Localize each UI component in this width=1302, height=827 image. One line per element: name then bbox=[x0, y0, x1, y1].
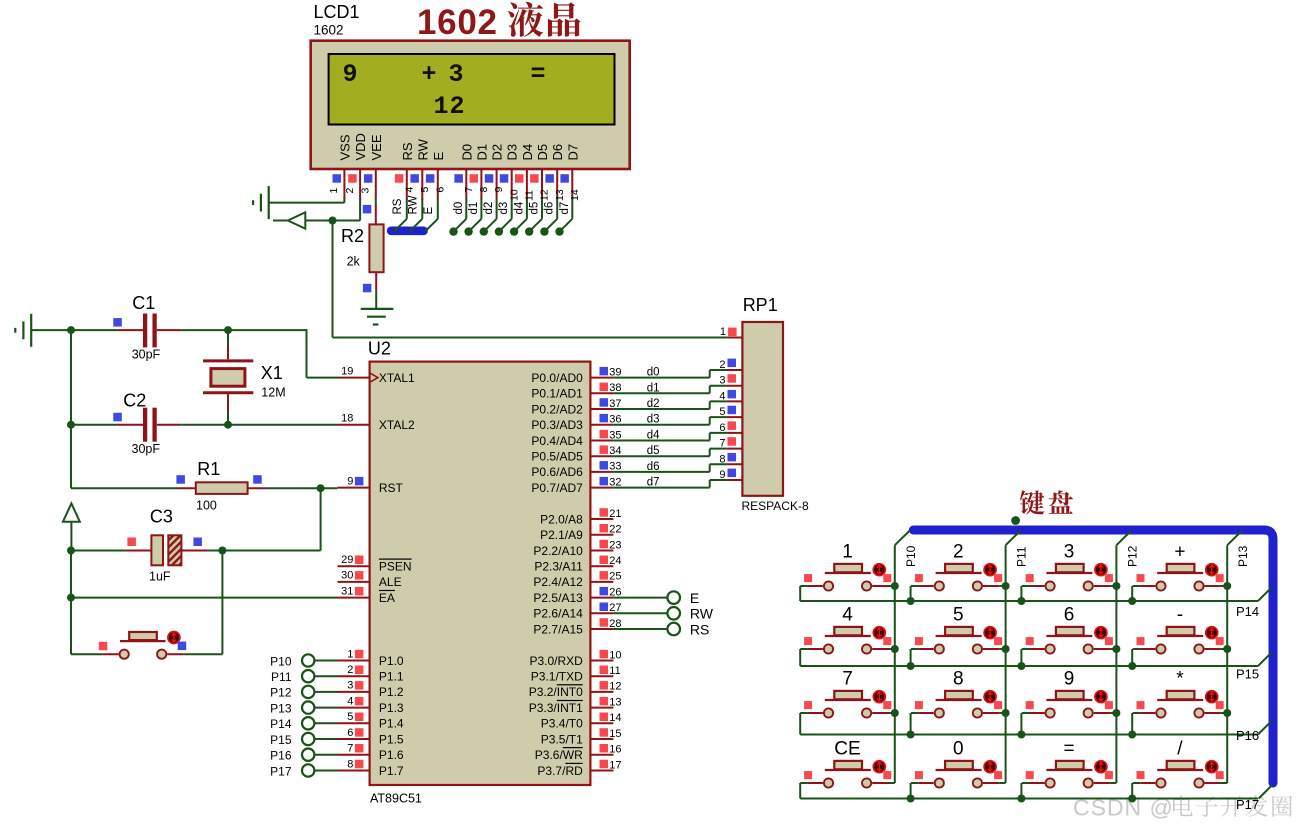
svg-text:14: 14 bbox=[609, 712, 621, 724]
svg-text:VEE: VEE bbox=[369, 134, 384, 160]
svg-text:17: 17 bbox=[609, 759, 621, 771]
U2 pin 35 (P0.4/AD4) bbox=[531, 429, 621, 448]
keypad bus (blue) bbox=[913, 530, 1273, 783]
keypad row wire 2 bbox=[800, 652, 1272, 666]
U2 pin 2 (P1.1) bbox=[338, 664, 404, 684]
wire RW from LCD to bus pill bbox=[407, 195, 422, 231]
svg-text:E: E bbox=[423, 207, 435, 215]
op U2 body (AT89C51) bbox=[370, 362, 591, 785]
push button 2 (keypad r1c2) bbox=[907, 542, 1010, 606]
svg-text:P12: P12 bbox=[1125, 545, 1139, 567]
wire d1 from LCD pin 8 to node bbox=[464, 199, 481, 236]
LCD screen text line 2 bbox=[434, 92, 465, 121]
svg-text:d2: d2 bbox=[483, 202, 495, 215]
svg-text:R2: R2 bbox=[341, 226, 364, 246]
svg-text:D5: D5 bbox=[535, 144, 550, 161]
LCD1 designator label bbox=[314, 2, 360, 37]
U2 pin 1 (P1.0) bbox=[338, 648, 404, 668]
ground (below R2) bbox=[361, 309, 394, 325]
svg-text:24: 24 bbox=[609, 555, 621, 567]
U2 pin 33 (P0.6/AD6) bbox=[531, 461, 621, 480]
blue bus entry pill (RS/RW/E) bbox=[387, 227, 428, 236]
svg-text:P2.3/A11: P2.3/A11 bbox=[534, 560, 583, 574]
svg-text:10: 10 bbox=[609, 649, 621, 661]
svg-text:P2.0/A8: P2.0/A8 bbox=[540, 512, 583, 526]
push button 9 (keypad r3c3) bbox=[1017, 669, 1120, 739]
R2 bottom stub to ground bbox=[375, 272, 377, 308]
svg-text:*: * bbox=[1176, 669, 1184, 690]
svg-text:P14: P14 bbox=[270, 717, 292, 731]
U2 pin 18 (XTAL2) bbox=[338, 413, 416, 433]
svg-text:VSS: VSS bbox=[337, 134, 352, 160]
net indicator square (R1 left) bbox=[176, 475, 185, 484]
terminal P10 bbox=[270, 654, 337, 668]
RP1 pin 8 / wire d6 bbox=[613, 453, 742, 473]
svg-text:X1: X1 bbox=[261, 363, 283, 383]
svg-text:5: 5 bbox=[953, 605, 964, 626]
push button 0 (keypad r4c2) bbox=[907, 739, 1006, 803]
svg-text:P10: P10 bbox=[904, 545, 918, 567]
left rail wire down bbox=[70, 330, 72, 425]
push button 1 (keypad r1c1) bbox=[800, 542, 899, 602]
U2 pin 28 (P2.7/A15) bbox=[533, 618, 621, 637]
junction ground rail / C1 bbox=[67, 326, 75, 334]
svg-text:d5: d5 bbox=[529, 202, 541, 215]
push button 3 (keypad r1c3) bbox=[1017, 542, 1120, 606]
svg-text:P3.4/T0: P3.4/T0 bbox=[541, 717, 583, 731]
U2 pin 10 (P3.0/RXD) bbox=[529, 649, 621, 668]
ground (top left) bbox=[15, 314, 71, 347]
svg-text:14: 14 bbox=[569, 189, 581, 201]
capacitor C2 bbox=[71, 408, 338, 442]
push button * (keypad r3c4) bbox=[1128, 669, 1231, 739]
U2 pin 37 (P0.2/AD2) bbox=[531, 398, 621, 417]
svg-text:31: 31 bbox=[341, 585, 353, 597]
svg-text:P1.6: P1.6 bbox=[379, 748, 404, 762]
svg-text:P1.4: P1.4 bbox=[379, 717, 404, 731]
push button = (keypad r4c3) bbox=[1017, 739, 1116, 803]
svg-text:d0: d0 bbox=[647, 367, 660, 379]
svg-text:RST: RST bbox=[379, 481, 404, 495]
terminal P17 bbox=[270, 764, 337, 778]
svg-text:7: 7 bbox=[347, 743, 353, 755]
svg-text:U2: U2 bbox=[368, 339, 391, 359]
svg-text:13: 13 bbox=[609, 696, 621, 708]
svg-text:VDD: VDD bbox=[353, 133, 368, 160]
svg-text:13: 13 bbox=[554, 189, 566, 201]
resistor pack RP1 body bbox=[742, 322, 783, 496]
svg-text:P10: P10 bbox=[270, 654, 292, 668]
U2 pin 36 (P0.3/AD3) bbox=[531, 414, 621, 433]
terminal P15 bbox=[270, 733, 337, 747]
wire d5 from LCD pin 12 to node bbox=[525, 199, 542, 236]
junction C2 / X1 bbox=[224, 421, 232, 429]
U2 pin 3 (P1.2) bbox=[338, 680, 404, 700]
svg-text:d2: d2 bbox=[647, 398, 660, 410]
U2 pin 31 (EA) bbox=[338, 585, 395, 605]
wire EA row bbox=[71, 597, 338, 599]
svg-text:P2.1/A9: P2.1/A9 bbox=[540, 528, 583, 542]
wire C3 up to RST row bbox=[320, 488, 322, 550]
svg-text:AT89C51: AT89C51 bbox=[370, 792, 422, 806]
svg-text:P3.0/RXD: P3.0/RXD bbox=[529, 654, 583, 668]
LCD1 pin 3 (VEE) bbox=[360, 134, 384, 199]
svg-text:C1: C1 bbox=[132, 293, 155, 313]
svg-text:P13: P13 bbox=[270, 701, 292, 715]
svg-text:D3: D3 bbox=[505, 144, 520, 161]
net indicator square (R2 bottom) bbox=[363, 284, 372, 293]
svg-text:RESPACK-8: RESPACK-8 bbox=[742, 499, 809, 513]
svg-text:8: 8 bbox=[347, 758, 353, 770]
ground (left of LCD) bbox=[253, 186, 269, 219]
svg-text:21: 21 bbox=[609, 508, 621, 520]
svg-text:=: = bbox=[1064, 739, 1075, 760]
svg-text:2k: 2k bbox=[347, 255, 361, 269]
push button 4 (keypad r2c1) bbox=[800, 605, 899, 667]
svg-text:P0.4/AD4: P0.4/AD4 bbox=[531, 434, 583, 448]
svg-text:8: 8 bbox=[953, 669, 964, 690]
net indicator square (C3 left) bbox=[127, 538, 135, 547]
U2 pin 26 (P2.5/A13) bbox=[533, 586, 621, 605]
junction VDD rail / RP1 pin1 wire bbox=[329, 217, 337, 225]
terminal P12 bbox=[270, 686, 337, 700]
svg-text:D0: D0 bbox=[459, 144, 474, 161]
svg-text:D1: D1 bbox=[474, 144, 489, 161]
terminal RW bbox=[613, 606, 713, 622]
svg-text:d7: d7 bbox=[559, 202, 571, 215]
svg-text:4: 4 bbox=[719, 390, 725, 402]
svg-text:P16: P16 bbox=[1236, 728, 1259, 743]
keypad column wire P13 bbox=[1227, 531, 1242, 784]
U2 pin 24 (P2.3/A11) bbox=[534, 555, 621, 574]
svg-text:1: 1 bbox=[720, 326, 726, 338]
svg-text:10: 10 bbox=[508, 189, 520, 201]
terminal P16 bbox=[270, 749, 337, 763]
svg-text:RW: RW bbox=[415, 138, 430, 160]
svg-text:4: 4 bbox=[842, 605, 853, 626]
svg-text:12: 12 bbox=[539, 189, 551, 201]
svg-text:1: 1 bbox=[842, 542, 853, 563]
svg-text:P17: P17 bbox=[270, 764, 292, 778]
svg-text:30: 30 bbox=[341, 570, 353, 582]
svg-text:1: 1 bbox=[434, 92, 449, 121]
junction C3 / reset button riser bbox=[218, 547, 226, 555]
svg-text:4: 4 bbox=[403, 187, 415, 193]
svg-text:P15: P15 bbox=[270, 733, 292, 747]
svg-text:2: 2 bbox=[719, 359, 725, 371]
net indicator square (VEE wire) bbox=[363, 205, 372, 214]
LCD1 pin 11 (D4) bbox=[515, 144, 536, 201]
node dot on bus bbox=[1011, 516, 1020, 525]
junction arrow / C3 / rail bbox=[67, 547, 75, 555]
U2 pin 14 (P3.4/T0) bbox=[541, 712, 622, 731]
U2 pin 13 (P3.3/INT1) bbox=[529, 696, 622, 715]
U2 pin 7 (P1.6) bbox=[338, 743, 404, 763]
svg-text:P2.7/A15: P2.7/A15 bbox=[533, 622, 583, 636]
U2 pin 21 (P2.0/A8) bbox=[540, 508, 621, 527]
svg-text:2: 2 bbox=[450, 92, 465, 121]
svg-text:23: 23 bbox=[609, 539, 621, 551]
capacitor C1 bbox=[71, 314, 307, 348]
svg-text:18: 18 bbox=[341, 413, 353, 425]
U2 pin 9 (RST) bbox=[338, 475, 404, 495]
svg-text:E: E bbox=[690, 590, 699, 606]
svg-text:D4: D4 bbox=[520, 144, 535, 161]
LCD1 pin 9 (D2) bbox=[485, 144, 505, 200]
svg-text:P16: P16 bbox=[270, 749, 292, 763]
svg-text:9: 9 bbox=[347, 475, 353, 487]
svg-text:7: 7 bbox=[842, 669, 853, 690]
svg-text:2: 2 bbox=[344, 188, 356, 194]
svg-text:3: 3 bbox=[347, 680, 353, 692]
svg-text:9: 9 bbox=[1064, 669, 1075, 690]
net indicator square (reset button left) bbox=[99, 642, 108, 651]
svg-text:d3: d3 bbox=[647, 414, 660, 426]
LCD1 pin 10 (D3) bbox=[500, 144, 521, 201]
svg-text:1: 1 bbox=[347, 648, 353, 660]
svg-text:P3.2/INT0: P3.2/INT0 bbox=[529, 685, 583, 699]
svg-text:P11: P11 bbox=[271, 670, 292, 684]
LCD1 pin 12 (D5) bbox=[530, 144, 551, 201]
svg-text:12: 12 bbox=[609, 681, 621, 693]
keypad column wire P11 bbox=[1006, 531, 1021, 784]
LCD1 screen bbox=[329, 54, 615, 125]
svg-text:P2.2/A10: P2.2/A10 bbox=[533, 544, 583, 558]
svg-text:6: 6 bbox=[434, 187, 446, 193]
svg-text:6: 6 bbox=[719, 422, 725, 434]
U2 pin 5 (P1.4) bbox=[338, 711, 404, 731]
svg-text:P15: P15 bbox=[1236, 667, 1259, 682]
wire reset button to C3 junction bbox=[183, 551, 222, 655]
svg-text:LCD1: LCD1 bbox=[314, 2, 360, 22]
keypad row wire 4 bbox=[800, 785, 1272, 799]
U2 pin 16 (P3.6/WR) bbox=[535, 744, 622, 763]
push button (reset) bbox=[103, 632, 184, 659]
svg-text:P3.1/TXD: P3.1/TXD bbox=[531, 670, 583, 684]
U2 pin 23 (P2.2/A10) bbox=[533, 539, 621, 558]
crystal X1 bbox=[203, 330, 253, 425]
svg-text:1uF: 1uF bbox=[149, 570, 171, 584]
U2 pin 4 (P1.3) bbox=[338, 695, 404, 715]
svg-text:P14: P14 bbox=[1236, 604, 1259, 619]
svg-text:P2.5/A13: P2.5/A13 bbox=[533, 591, 583, 605]
wire C1 row to XTAL1 bbox=[307, 329, 338, 378]
rail wire C3 to EA row bbox=[70, 551, 72, 598]
RP1 pin 7 / wire d5 bbox=[613, 437, 742, 457]
wire RS from LCD to bus pill bbox=[392, 198, 407, 231]
svg-text:d7: d7 bbox=[647, 477, 660, 489]
svg-text:D7: D7 bbox=[565, 144, 580, 161]
wire VDD rail down and across to RP1 pin 1 bbox=[333, 221, 728, 338]
U2 pin 38 (P0.1/AD1) bbox=[531, 382, 621, 401]
svg-text:9: 9 bbox=[343, 60, 358, 89]
svg-text:d0: d0 bbox=[453, 202, 465, 215]
power terminal arrow (VCC to C3) bbox=[63, 503, 80, 550]
svg-text:16: 16 bbox=[609, 744, 621, 756]
svg-text:+: + bbox=[422, 60, 437, 89]
LCD1 pin 5 (RW) bbox=[410, 138, 431, 199]
svg-text:P3.3/INT1: P3.3/INT1 bbox=[529, 701, 583, 715]
svg-text:=: = bbox=[531, 60, 546, 89]
svg-text:C2: C2 bbox=[123, 390, 146, 410]
svg-text:d4: d4 bbox=[513, 201, 525, 214]
U2 pin 6 (P1.5) bbox=[338, 727, 404, 747]
keypad row wire 3 bbox=[800, 720, 1272, 734]
svg-text:P3.6/WR: P3.6/WR bbox=[535, 748, 583, 762]
U2 pin 17 (P3.7/RD) bbox=[537, 759, 621, 778]
wire d4 from LCD pin 11 to node bbox=[510, 199, 527, 236]
junction rail / C2 bbox=[67, 421, 75, 429]
LCD1 pin 8 (D1) bbox=[470, 144, 491, 200]
svg-text:6: 6 bbox=[1064, 605, 1075, 626]
svg-text:P1.2: P1.2 bbox=[379, 685, 404, 699]
terminal P14 bbox=[270, 717, 337, 731]
U2 pin 25 (P2.4/A12) bbox=[533, 571, 621, 590]
RP1 pin 2 / wire d0 bbox=[613, 359, 742, 379]
RP1 pin 5 / wire d3 bbox=[613, 406, 742, 426]
svg-text:R1: R1 bbox=[197, 459, 220, 479]
svg-text:d6: d6 bbox=[647, 461, 660, 473]
svg-text:7: 7 bbox=[719, 438, 725, 450]
push button / (keypad r4c4) bbox=[1128, 739, 1227, 803]
svg-text:d3: d3 bbox=[498, 202, 510, 215]
wire d2 from LCD pin 9 to node bbox=[480, 199, 497, 236]
U2 pin 32 (P0.7/AD7) bbox=[531, 476, 621, 495]
push button 8 (keypad r3c2) bbox=[907, 669, 1010, 739]
keypad row wire 1 bbox=[800, 587, 1272, 601]
net indicator square (reset button right) bbox=[178, 642, 187, 651]
svg-text:D2: D2 bbox=[490, 144, 505, 161]
wire d6 from LCD pin 13 to node bbox=[540, 199, 557, 236]
svg-text:P11: P11 bbox=[1015, 546, 1029, 567]
svg-text:22: 22 bbox=[609, 524, 621, 536]
svg-text:P0.0/AD0: P0.0/AD0 bbox=[531, 371, 583, 385]
svg-text:5: 5 bbox=[719, 406, 725, 418]
U2 pin 19 (XTAL1) bbox=[338, 365, 416, 385]
svg-text:9: 9 bbox=[493, 187, 505, 193]
svg-text:d6: d6 bbox=[544, 202, 556, 215]
LCD1 pin 6 (E) bbox=[426, 152, 447, 200]
svg-text:2: 2 bbox=[953, 542, 964, 563]
U2 pin 39 (P0.0/AD0) bbox=[531, 366, 621, 385]
push button 5 (keypad r2c2) bbox=[907, 605, 1010, 671]
svg-text:P0.6/AD6: P0.6/AD6 bbox=[531, 465, 583, 479]
power terminal arrow (VDD) bbox=[273, 212, 360, 228]
LCD1 pin 1 (VSS) bbox=[328, 134, 352, 199]
svg-text:RP1: RP1 bbox=[743, 295, 778, 315]
U2 pin 27 (P2.6/A14) bbox=[533, 602, 621, 621]
U2 pin 11 (P3.1/TXD) bbox=[531, 665, 621, 684]
svg-text:3: 3 bbox=[360, 188, 372, 194]
svg-text:1602: 1602 bbox=[417, 3, 498, 42]
svg-text:8: 8 bbox=[719, 453, 725, 465]
svg-text:9: 9 bbox=[719, 469, 725, 481]
net indicator square (C1) bbox=[113, 318, 122, 327]
svg-text:d1: d1 bbox=[647, 382, 660, 394]
wire d7 from LCD pin 14 to node bbox=[555, 199, 572, 236]
net indicator square (C3 right) bbox=[193, 538, 202, 547]
svg-text:15: 15 bbox=[609, 728, 621, 740]
LCD1 pin 7 (D0) bbox=[454, 144, 475, 200]
LCD1 pin 2 (VDD) bbox=[344, 133, 368, 200]
svg-text:P2.6/A14: P2.6/A14 bbox=[533, 607, 583, 621]
net indicator square (R1 right) bbox=[253, 475, 262, 484]
svg-text:3: 3 bbox=[1064, 542, 1075, 563]
wire E from LCD to bus pill bbox=[423, 199, 438, 232]
svg-text:P3.5/T1: P3.5/T1 bbox=[541, 732, 583, 746]
push button 7 (keypad r3c1) bbox=[800, 669, 899, 735]
svg-text:30pF: 30pF bbox=[132, 442, 161, 456]
svg-text:P0.2/AD2: P0.2/AD2 bbox=[531, 402, 583, 416]
terminal E bbox=[613, 590, 699, 606]
svg-text:5: 5 bbox=[347, 711, 353, 723]
svg-text:0: 0 bbox=[953, 739, 964, 760]
resistor R1 bbox=[177, 482, 338, 494]
U2 pin 15 (P3.5/T1) bbox=[541, 728, 622, 747]
svg-text:P0.7/AD7: P0.7/AD7 bbox=[531, 481, 583, 495]
junction C1 / X1 bbox=[224, 326, 232, 334]
svg-text:d1: d1 bbox=[468, 202, 480, 215]
svg-text:2: 2 bbox=[347, 664, 353, 676]
svg-text:D6: D6 bbox=[550, 144, 565, 161]
svg-text:100: 100 bbox=[196, 499, 217, 513]
svg-text:P0.3/AD3: P0.3/AD3 bbox=[531, 418, 583, 432]
keypad column wire P10 bbox=[895, 531, 910, 784]
svg-text:7: 7 bbox=[463, 187, 475, 193]
svg-text:5: 5 bbox=[419, 187, 431, 193]
svg-text:P2.4/A12: P2.4/A12 bbox=[533, 575, 583, 589]
svg-text:XTAL2: XTAL2 bbox=[379, 418, 415, 432]
svg-text:6: 6 bbox=[347, 727, 353, 739]
svg-text:RW: RW bbox=[690, 606, 714, 622]
push button CE (keypad r4c1) bbox=[800, 739, 895, 799]
svg-text:3: 3 bbox=[719, 375, 725, 387]
svg-text:12M: 12M bbox=[261, 386, 285, 400]
resistor R2 bbox=[369, 224, 383, 272]
watermark bbox=[1073, 795, 1292, 821]
terminal P13 bbox=[270, 701, 337, 715]
svg-text:29: 29 bbox=[341, 554, 353, 566]
svg-text:11: 11 bbox=[524, 190, 536, 201]
wire d3 from LCD pin 10 to node bbox=[495, 199, 512, 236]
wire LCD pin1 (VSS) to ground bbox=[269, 199, 345, 203]
push button - (keypad r2c4) bbox=[1128, 605, 1231, 671]
RP1 pin 1 bbox=[720, 326, 743, 338]
U2 pin 29 (PSEN) bbox=[338, 554, 412, 574]
RP1 pin 4 / wire d2 bbox=[613, 390, 742, 410]
net indicator square (C2) bbox=[113, 413, 122, 422]
svg-text:P13: P13 bbox=[1236, 545, 1250, 567]
junction rail / EA bbox=[67, 594, 75, 602]
svg-text:C3: C3 bbox=[150, 507, 173, 527]
U2 pin 8 (P1.7) bbox=[338, 758, 404, 778]
svg-text:1: 1 bbox=[328, 188, 340, 194]
svg-text:P17: P17 bbox=[1236, 797, 1259, 812]
svg-text:P1.1: P1.1 bbox=[379, 670, 404, 684]
svg-text:d4: d4 bbox=[647, 430, 660, 442]
svg-text:XTAL1: XTAL1 bbox=[379, 371, 415, 385]
title 1602 LCD (Chinese) bbox=[417, 2, 581, 42]
svg-text:25: 25 bbox=[609, 571, 621, 583]
keypad title (Chinese) bbox=[1020, 490, 1073, 514]
RP1 pin 9 / wire d7 bbox=[613, 469, 742, 489]
svg-text:/: / bbox=[1177, 739, 1183, 760]
push button + (keypad r1c4) bbox=[1128, 542, 1231, 606]
svg-text:P0.5/AD5: P0.5/AD5 bbox=[531, 450, 583, 464]
svg-text:RS: RS bbox=[392, 198, 404, 214]
LCD1 pin 4 (RS) bbox=[395, 142, 416, 199]
svg-text:RW: RW bbox=[407, 195, 419, 214]
